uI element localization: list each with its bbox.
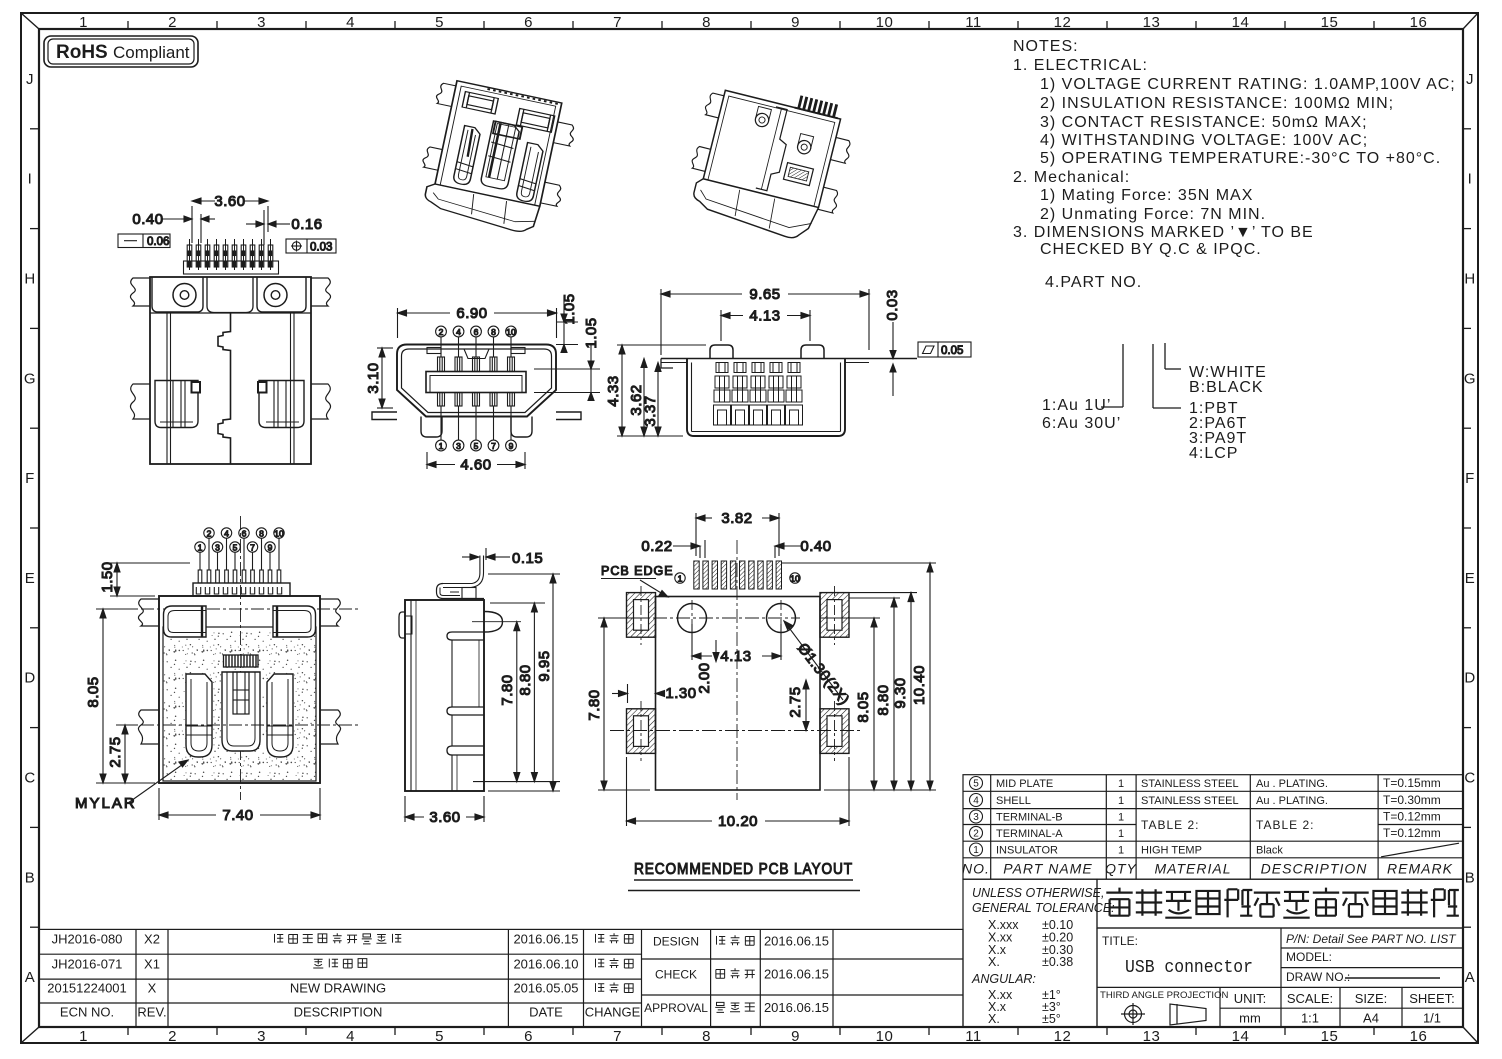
svg-text:4.33: 4.33 — [605, 375, 622, 406]
pad number 1 — [675, 573, 685, 583]
svg-text:THIRD ANGLE PROJECTION: THIRD ANGLE PROJECTION — [1100, 990, 1229, 1001]
svg-text:TABLE 2:: TABLE 2: — [1141, 818, 1199, 832]
dim 1.50 — [99, 561, 190, 596]
svg-text:6:Au 30U’: 6:Au 30U’ — [1042, 415, 1121, 432]
svg-text:14: 14 — [1232, 1028, 1250, 1045]
svg-text:UNIT:: UNIT: — [1234, 991, 1267, 1006]
internal terminals — [714, 363, 803, 426]
svg-text:A4: A4 — [1363, 1011, 1379, 1026]
svg-text:15: 15 — [1321, 14, 1339, 31]
svg-text:10.40: 10.40 — [911, 665, 928, 705]
svg-text:0.22: 0.22 — [641, 538, 672, 555]
svg-text:PART NAME: PART NAME — [1003, 861, 1092, 877]
svg-text:2: 2 — [168, 1028, 177, 1045]
svg-text:4: 4 — [346, 14, 355, 31]
svg-text:2.00: 2.00 — [696, 662, 713, 693]
flange lines — [661, 358, 917, 360]
dim 4.13 — [692, 624, 781, 665]
iso skirt (mating face) — [422, 182, 540, 234]
svg-text:3: 3 — [215, 542, 220, 552]
svg-text:2016.06.15: 2016.06.15 — [764, 967, 829, 982]
dim 3.60 — [405, 796, 484, 826]
svg-text:G: G — [24, 370, 36, 387]
knurl hatch top edge — [487, 89, 559, 104]
upper contacts — [438, 357, 445, 372]
svg-text:3) CONTACT RESISTANCE: 50mΩ MA: 3) CONTACT RESISTANCE: 50mΩ MAX; — [1040, 114, 1368, 131]
svg-text:1: 1 — [198, 542, 203, 552]
dim 3.37 — [642, 363, 661, 437]
svg-text:0.06: 0.06 — [147, 236, 169, 248]
svg-text:6.90: 6.90 — [456, 305, 487, 322]
svg-text:4.PART NO.: 4.PART NO. — [1045, 274, 1142, 291]
lower-right wing — [320, 710, 341, 744]
svg-text:1.50: 1.50 — [99, 561, 116, 592]
svg-text:7.80: 7.80 — [499, 674, 516, 705]
corner diagonal bottom-left — [21, 1027, 39, 1043]
right clip — [516, 143, 545, 203]
svg-text:SIZE:: SIZE: — [1355, 991, 1388, 1006]
svg-text:2016.05.05: 2016.05.05 — [513, 981, 578, 996]
pin header — [193, 583, 290, 596]
svg-text:4: 4 — [973, 796, 979, 807]
svg-text:13: 13 — [1143, 14, 1161, 31]
svg-text:D: D — [24, 670, 35, 687]
svg-text:A: A — [25, 969, 36, 986]
svg-text:10: 10 — [506, 327, 516, 337]
svg-text:2.75: 2.75 — [107, 736, 124, 767]
svg-text:8: 8 — [491, 327, 496, 337]
svg-text:RECOMMENDED PCB LAYOUT: RECOMMENDED PCB LAYOUT — [634, 861, 853, 878]
svg-text:1: 1 — [79, 1028, 88, 1045]
right latch — [259, 381, 304, 428]
svg-text:5: 5 — [474, 441, 479, 451]
svg-text:3: 3 — [456, 441, 461, 451]
svg-text:T=0.12mm: T=0.12mm — [1383, 826, 1441, 840]
right solder leg — [556, 412, 581, 420]
dim 1.05 upper — [556, 293, 578, 352]
bottom ext line — [824, 789, 936, 791]
iso body outline — [703, 90, 840, 207]
svg-text:MYLAR: MYLAR — [75, 795, 137, 812]
svg-text:DESIGN: DESIGN — [653, 935, 699, 949]
svg-text:NOTES:: NOTES: — [1013, 38, 1079, 55]
svg-text:3.37: 3.37 — [642, 395, 659, 426]
svg-text:10: 10 — [790, 573, 800, 583]
svg-text:8: 8 — [702, 14, 711, 31]
latch windows — [462, 92, 498, 114]
svg-text:0.16: 0.16 — [291, 216, 322, 233]
feature frame 0.03 — [286, 239, 336, 254]
svg-text:J: J — [1466, 71, 1474, 88]
svg-text:1: 1 — [439, 441, 444, 451]
dim 0.22 — [641, 538, 705, 558]
svg-text:7: 7 — [613, 1028, 622, 1045]
dim 3.62 — [628, 359, 647, 437]
svg-text:MATERIAL: MATERIAL — [1155, 861, 1232, 877]
svg-text:NO.: NO. — [962, 861, 990, 877]
title block — [963, 879, 1463, 1027]
svg-text:RoHS: RoHS — [56, 42, 108, 63]
lower-left wing — [130, 384, 150, 419]
svg-text:2: 2 — [168, 14, 177, 31]
svg-text:9: 9 — [509, 441, 514, 451]
svg-text:1) VOLTAGE CURRENT RATING: 1.0: 1) VOLTAGE CURRENT RATING: 1.0AMP,100V A… — [1040, 76, 1456, 93]
svg-text:0.40: 0.40 — [132, 211, 163, 228]
svg-text:Au . PLATING.: Au . PLATING. — [1256, 778, 1328, 790]
dim 10.40 — [782, 563, 936, 790]
frame grid numbers top — [79, 14, 1427, 31]
feature frame 0.05 — [918, 342, 971, 357]
svg-text:3.10: 3.10 — [365, 362, 382, 393]
svg-text:HIGH TEMP: HIGH TEMP — [1141, 845, 1202, 857]
svg-text:5) OPERATING TEMPERATURE:-30°C: 5) OPERATING TEMPERATURE:-30°C TO +80°C. — [1040, 150, 1441, 167]
svg-text:4.13: 4.13 — [749, 308, 780, 325]
svg-text:10: 10 — [876, 1028, 894, 1045]
hole circle right — [767, 604, 796, 633]
svg-text:NEW DRAWING: NEW DRAWING — [290, 981, 386, 996]
svg-text:0.03: 0.03 — [310, 242, 332, 254]
svg-text:13: 13 — [1143, 1028, 1161, 1045]
svg-text:INSULATOR: INSULATOR — [996, 845, 1058, 857]
svg-text:2016.06.15: 2016.06.15 — [513, 932, 578, 947]
latch window with hatch — [783, 163, 813, 186]
view: bottom view with mylar (bottom-left) — [75, 516, 359, 824]
view: front view of connector (center) — [365, 293, 600, 473]
svg-text:DATE: DATE — [529, 1005, 563, 1020]
svg-text:12: 12 — [1054, 14, 1072, 31]
upper-left wing — [138, 599, 159, 626]
dim 7.80 — [473, 622, 560, 782]
NOTES text block — [1013, 38, 1456, 291]
mounting pad ring — [627, 709, 656, 754]
svg-text:C: C — [24, 770, 35, 787]
svg-text:1: 1 — [678, 573, 683, 583]
svg-text:5: 5 — [435, 1028, 444, 1045]
svg-text:H: H — [1464, 271, 1475, 288]
svg-text:1.30: 1.30 — [665, 685, 696, 702]
left solder leg — [372, 412, 397, 420]
svg-text:10: 10 — [274, 528, 284, 538]
svg-text:0.03: 0.03 — [884, 289, 901, 320]
svg-text:14: 14 — [1232, 14, 1250, 31]
mounting pad ring — [627, 593, 656, 638]
svg-text:0.15: 0.15 — [512, 550, 543, 567]
dim 2.75 — [787, 680, 809, 731]
RoHS Compliant logo — [44, 36, 198, 67]
feature frame 0.06 — [118, 234, 170, 248]
svg-text:REV.: REV. — [137, 1005, 166, 1020]
svg-text:10.20: 10.20 — [718, 813, 758, 830]
svg-text:20151224001: 20151224001 — [47, 981, 127, 996]
dim 4.33 — [605, 345, 706, 436]
left clip — [186, 674, 212, 757]
svg-text:3: 3 — [973, 812, 979, 823]
centre channel — [756, 107, 795, 193]
svg-text:Black: Black — [1256, 845, 1283, 857]
shell front outline — [397, 345, 556, 417]
svg-text:G: G — [1464, 370, 1476, 387]
view: recommended PCB layout (bottom center) — [586, 510, 936, 891]
rivet circles — [754, 112, 770, 128]
svg-text:6: 6 — [524, 14, 533, 31]
svg-text:ANGULAR:: ANGULAR: — [971, 972, 1036, 986]
svg-text:4) WITHSTANDING VOLTAGE: 100V: 4) WITHSTANDING VOLTAGE: 100V AC; — [1040, 132, 1368, 149]
parts table — [962, 775, 1463, 880]
svg-text:A: A — [1465, 969, 1476, 986]
svg-text:E: E — [1465, 570, 1476, 587]
pin numbers circles — [204, 528, 214, 538]
svg-text:7: 7 — [491, 441, 496, 451]
part number tree — [1101, 343, 1181, 408]
svg-text:2016.06.10: 2016.06.10 — [513, 956, 578, 971]
view: isometric view right (top right of views) — [680, 74, 861, 247]
corner diagonal bottom-right — [1463, 1027, 1478, 1043]
svg-text:2) INSULATION RESISTANCE: 100M: 2) INSULATION RESISTANCE: 100MΩ MIN; — [1040, 95, 1394, 112]
svg-text:1: 1 — [973, 845, 979, 856]
svg-text:MODEL:: MODEL: — [1286, 950, 1332, 964]
svg-text:2) Unmating Force: 7N MIN.: 2) Unmating Force: 7N MIN. — [1040, 206, 1266, 223]
top pin hook — [479, 556, 481, 574]
svg-text:DESCRIPTION: DESCRIPTION — [294, 1005, 383, 1020]
svg-text:SHEET:: SHEET: — [1409, 991, 1455, 1006]
corner diagonal top-right — [1463, 13, 1478, 29]
dim 2.75 — [107, 725, 135, 783]
svg-text:2: 2 — [207, 528, 212, 538]
centre tongue — [426, 372, 526, 393]
dim 0.16 — [246, 210, 323, 245]
pin header bar — [184, 261, 279, 274]
svg-text:STAINLESS STEEL: STAINLESS STEEL — [1141, 778, 1239, 790]
svg-text:REMARK: REMARK — [1387, 861, 1453, 877]
svg-text:9: 9 — [268, 542, 273, 552]
svg-text:3: 3 — [257, 1028, 266, 1045]
dim 3.10 — [365, 348, 393, 408]
svg-text:±5°: ±5° — [1042, 1012, 1061, 1026]
dim 9.65 — [661, 286, 869, 355]
dim 9.30 — [849, 593, 917, 790]
svg-text:Au . PLATING.: Au . PLATING. — [1256, 795, 1328, 807]
svg-text:3: 3 — [257, 14, 266, 31]
svg-text:TERMINAL-A: TERMINAL-A — [996, 828, 1063, 840]
body outline — [159, 596, 320, 783]
svg-text:1.05: 1.05 — [561, 293, 578, 324]
svg-text:6: 6 — [474, 327, 479, 337]
svg-text:16: 16 — [1410, 1028, 1428, 1045]
svg-text:JH2016-080: JH2016-080 — [52, 932, 123, 947]
svg-text:9: 9 — [791, 1028, 800, 1045]
svg-text:USB connector: USB connector — [1125, 958, 1253, 978]
svg-text:3.82: 3.82 — [721, 510, 752, 527]
svg-text:2. Mechanical:: 2. Mechanical: — [1013, 169, 1130, 186]
pin comb — [797, 95, 838, 117]
svg-text:3.60: 3.60 — [429, 809, 460, 826]
claw tabs — [704, 92, 724, 118]
skirt — [689, 177, 819, 242]
svg-text:TERMINAL-B: TERMINAL-B — [996, 812, 1063, 824]
svg-text:5: 5 — [435, 14, 444, 31]
svg-text:T=0.12mm: T=0.12mm — [1383, 810, 1441, 824]
svg-text:X2: X2 — [144, 932, 160, 947]
view: rear/side view 9.65 (center-right) — [605, 286, 971, 436]
centerline vertical — [736, 540, 738, 800]
dim 7.80 — [586, 618, 650, 790]
lower-left wing — [138, 710, 159, 744]
view: side profile 3.60 (bottom middle) — [399, 548, 560, 826]
svg-text:11: 11 — [965, 1028, 982, 1045]
svg-text:T=0.30mm: T=0.30mm — [1383, 793, 1441, 807]
label dia 1.30 2X — [784, 621, 843, 700]
shell body — [687, 359, 845, 437]
svg-text:STAINLESS STEEL: STAINLESS STEEL — [1141, 795, 1239, 807]
svg-text:1:Au 1U’: 1:Au 1U’ — [1042, 397, 1111, 414]
svg-text:QTY: QTY — [1105, 861, 1137, 877]
center clip — [224, 655, 259, 667]
dim 4.60 — [427, 452, 525, 474]
svg-text:TITLE:: TITLE: — [1102, 934, 1138, 948]
dim 9.95 — [488, 574, 560, 791]
svg-text:7.40: 7.40 — [222, 807, 253, 824]
svg-text:mm: mm — [1239, 1011, 1261, 1026]
svg-text:J: J — [26, 71, 34, 88]
svg-text:SCALE:: SCALE: — [1287, 991, 1333, 1006]
left clip — [453, 126, 482, 186]
svg-text:X: X — [148, 981, 157, 996]
svg-text:2016.06.15: 2016.06.15 — [764, 934, 829, 949]
dim 1.05 lower — [534, 317, 600, 400]
dim 8.05 — [85, 609, 155, 783]
dim 7.40 — [159, 788, 320, 824]
dim 8.05 — [820, 618, 880, 790]
dim 0.15 — [462, 548, 543, 567]
corner diagonal top-left — [21, 13, 39, 29]
svg-text:B:BLACK: B:BLACK — [1189, 379, 1264, 396]
svg-text:PCB EDGE: PCB EDGE — [601, 564, 674, 578]
svg-text:F: F — [25, 470, 35, 487]
right clip — [267, 674, 293, 757]
dim 6.90 — [398, 305, 557, 338]
svg-text:P/N: Detail See PART NO. LIST: P/N: Detail See PART NO. LIST — [1286, 932, 1457, 946]
svg-text:X.: X. — [988, 955, 1000, 969]
svg-text:5: 5 — [973, 779, 979, 790]
svg-text:F: F — [1465, 470, 1475, 487]
mounting pad ring — [820, 709, 849, 754]
top-left wing — [130, 278, 150, 306]
svg-text:1:1: 1:1 — [1301, 1011, 1319, 1026]
svg-text:E: E — [25, 570, 36, 587]
pin row 10 pins — [187, 239, 273, 270]
mylar stippled area — [163, 627, 316, 781]
svg-text:9.65: 9.65 — [749, 286, 780, 303]
dim 3.82 — [696, 510, 779, 556]
svg-text:D: D — [1464, 670, 1475, 687]
svg-text:1: 1 — [1118, 795, 1124, 807]
left tab — [399, 612, 405, 638]
svg-text:8.80: 8.80 — [875, 684, 892, 715]
svg-text:0.40: 0.40 — [800, 538, 831, 555]
svg-text:15: 15 — [1321, 1028, 1339, 1045]
svg-text:7: 7 — [613, 14, 622, 31]
top latch holes — [427, 348, 441, 354]
top bosses — [710, 345, 733, 359]
svg-text:4: 4 — [224, 528, 229, 538]
svg-text:4.13: 4.13 — [720, 648, 751, 665]
left latch — [155, 381, 198, 428]
svg-text:2: 2 — [439, 327, 444, 337]
view: isometric view left (top middle) — [413, 77, 581, 239]
svg-text:1: 1 — [1118, 845, 1124, 857]
svg-text:12: 12 — [1054, 1028, 1072, 1045]
svg-text:MID PLATE: MID PLATE — [996, 778, 1053, 790]
svg-text:B: B — [25, 869, 36, 886]
iso body outline — [435, 81, 562, 207]
svg-text:Compliant: Compliant — [113, 43, 190, 62]
svg-text:9: 9 — [791, 14, 800, 31]
view: top view of connector (top-left) — [118, 193, 336, 464]
svg-text:TABLE 2:: TABLE 2: — [1256, 818, 1314, 832]
left ear with hole — [152, 277, 203, 312]
top-right wing — [311, 278, 331, 306]
claw tabs — [435, 82, 456, 106]
svg-text:±0.38: ±0.38 — [1042, 955, 1073, 969]
lower-right wing — [311, 384, 331, 419]
side walls — [166, 313, 168, 464]
svg-text:DRAW NO.:: DRAW NO.: — [1286, 970, 1350, 984]
svg-text:1: 1 — [1118, 828, 1124, 840]
svg-text:7: 7 — [250, 542, 255, 552]
svg-text:10: 10 — [876, 14, 894, 31]
svg-text:4.60: 4.60 — [460, 457, 491, 474]
svg-text:4: 4 — [456, 327, 461, 337]
svg-text:1) Mating Force: 35N MAX: 1) Mating Force: 35N MAX — [1040, 187, 1253, 204]
right ledges — [447, 632, 484, 640]
dim 3.60 — [192, 193, 268, 243]
center channel — [218, 313, 231, 464]
upper-right wing — [320, 599, 341, 626]
svg-text:3.60: 3.60 — [214, 193, 245, 210]
dim 0.40 — [132, 211, 215, 243]
svg-text:3. DIMENSIONS MARKED ’▼’ TO BE: 3. DIMENSIONS MARKED ’▼’ TO BE — [1013, 224, 1314, 241]
svg-text:T=0.15mm: T=0.15mm — [1383, 776, 1441, 790]
upper latches — [164, 606, 207, 637]
svg-text:I: I — [28, 171, 33, 188]
svg-text:1: 1 — [1118, 812, 1124, 824]
svg-text:11: 11 — [965, 14, 982, 31]
svg-text:1: 1 — [79, 14, 88, 31]
svg-text:2016.06.15: 2016.06.15 — [764, 1000, 829, 1015]
svg-text:4: 4 — [346, 1028, 355, 1045]
svg-text:2.75: 2.75 — [787, 686, 804, 717]
svg-text:B: B — [1465, 869, 1476, 886]
dim 8.80 — [849, 598, 900, 790]
svg-text:ECN NO.: ECN NO. — [60, 1005, 114, 1020]
svg-text:JH2016-071: JH2016-071 — [52, 956, 123, 971]
lower contacts — [438, 393, 445, 407]
frame grid numbers bottom — [79, 1028, 1427, 1045]
svg-text:8.80: 8.80 — [517, 664, 534, 695]
svg-text:9.30: 9.30 — [892, 677, 909, 708]
svg-text:CHANGE: CHANGE — [585, 1005, 641, 1020]
svg-text:8.05: 8.05 — [855, 691, 872, 722]
pin numbers 1 3 5 7 9 — [436, 440, 447, 451]
svg-text:7.80: 7.80 — [586, 689, 603, 720]
svg-text:8: 8 — [259, 528, 264, 538]
dim 10.20 — [627, 757, 850, 830]
svg-text:C: C — [1464, 770, 1475, 787]
right boss — [484, 612, 503, 633]
svg-text:GENERAL TOLERANCE:: GENERAL TOLERANCE: — [972, 901, 1115, 915]
svg-text:4:LCP: 4:LCP — [1189, 445, 1238, 462]
svg-text:1.05: 1.05 — [583, 317, 600, 348]
